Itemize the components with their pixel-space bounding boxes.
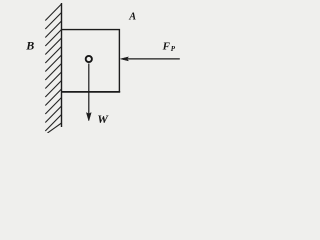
force arrow F_P (shaft) [126, 58, 180, 60]
svg-text:A: A [128, 11, 136, 22]
block outline (top, right, bottom edges) [62, 30, 120, 92]
weight arrow W (shaft) [88, 64, 90, 115]
wall hatching [45, 4, 61, 133]
svg-text:F: F [162, 40, 171, 52]
block bottom edge [62, 91, 121, 93]
weight arrow W (head) [86, 113, 91, 121]
svg-text:P: P [171, 45, 176, 53]
svg-text:W: W [97, 112, 109, 126]
force arrow F_P (head) [120, 57, 128, 61]
svg-text:B: B [25, 39, 34, 53]
wall surface line (vertical) [61, 3, 63, 127]
pin circle at block centre [86, 56, 92, 62]
